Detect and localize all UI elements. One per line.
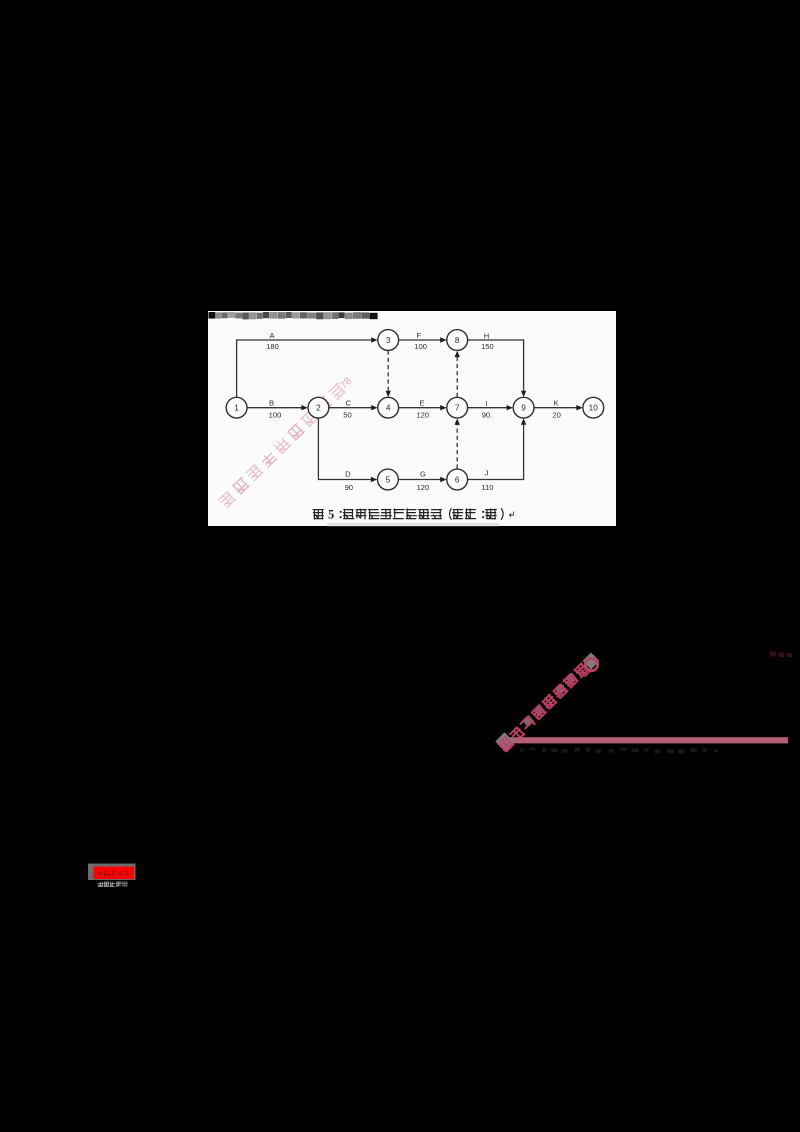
activity K arrow (9->10): [534, 407, 580, 409]
svg-text:5: 5: [386, 474, 391, 484]
activity G arrow (5->6): [399, 479, 445, 481]
svg-text:50: 50: [343, 411, 351, 420]
dashed dummy arrow (3->4): [387, 351, 389, 395]
svg-text:1: 1: [234, 403, 239, 413]
svg-text:4: 4: [386, 403, 391, 413]
svg-text:6: 6: [455, 474, 460, 484]
node 7: [447, 397, 468, 418]
svg-text:J: J: [485, 468, 489, 477]
node 3: [378, 330, 399, 351]
svg-text:3: 3: [386, 335, 391, 345]
svg-text:B: B: [269, 398, 274, 407]
svg-text:100: 100: [414, 342, 427, 351]
svg-text:E: E: [419, 398, 424, 407]
svg-text:5: 5: [328, 507, 334, 521]
node 9: [513, 397, 534, 418]
smudged heading text row: [209, 312, 378, 319]
svg-text:I: I: [485, 399, 487, 408]
svg-text:9: 9: [521, 403, 526, 413]
faint dark red dots right of line: [770, 652, 792, 658]
crimson diagonal watermark characters: [499, 663, 589, 752]
svg-text:F: F: [416, 331, 421, 340]
svg-text:100: 100: [269, 411, 282, 420]
activity E arrow (4->7): [399, 407, 445, 409]
red highlight box: [94, 867, 135, 880]
node 10: [583, 397, 604, 418]
activity F arrow (3->8): [399, 339, 445, 341]
figure white box: [208, 311, 616, 527]
node 8: [447, 330, 468, 351]
node 5: [378, 469, 399, 490]
svg-text:C: C: [345, 398, 351, 407]
svg-text:2: 2: [316, 403, 321, 413]
node 2: [308, 397, 329, 418]
svg-text:20: 20: [552, 411, 560, 420]
dark marks inside red box: [98, 870, 127, 877]
caption 图5：双代号网络计划图（单位：天）: [313, 507, 513, 521]
svg-text:7: 7: [455, 403, 460, 413]
node 6: [447, 469, 468, 490]
activity I arrow (7->9): [468, 407, 511, 409]
crimson watermark top characters: [579, 665, 590, 676]
svg-text:110: 110: [481, 483, 493, 492]
faint grey smear under caption: [327, 523, 499, 526]
dashed dummy arrow (6->7): [456, 421, 458, 469]
svg-text:90: 90: [345, 483, 353, 492]
svg-text:G: G: [420, 470, 426, 479]
activity A arrow (1->3): [237, 340, 376, 397]
node 4: [378, 397, 399, 418]
svg-text:D: D: [345, 470, 351, 479]
activity H arrow (8->9): [468, 340, 524, 395]
pink watermark 精准押题联系微信3849178 (rotated): [219, 375, 355, 508]
activity B arrow (1->2): [247, 407, 305, 409]
activity J arrow (6->9): [468, 421, 524, 480]
dashed dummy arrow (7->8): [456, 353, 458, 397]
node 1: [226, 397, 247, 418]
svg-text:120: 120: [416, 411, 429, 420]
faint dark marks under crimson line: [520, 748, 718, 754]
svg-text:8: 8: [455, 335, 460, 345]
svg-text:H: H: [484, 332, 489, 341]
svg-text:150: 150: [481, 342, 494, 351]
crimson line left end char: [495, 732, 513, 750]
svg-text:180: 180: [266, 342, 279, 351]
svg-text:120: 120: [417, 483, 430, 492]
svg-text:10: 10: [589, 403, 599, 413]
grey text line under red box: [98, 882, 128, 887]
activity C arrow (2->4): [329, 407, 375, 409]
svg-text:A: A: [269, 331, 275, 340]
activity D arrow (2->5): [318, 418, 375, 479]
svg-text:K: K: [553, 398, 558, 407]
crimson watermark ring: [583, 653, 600, 671]
crimson horizontal line: [503, 737, 788, 743]
svg-text:90: 90: [482, 411, 490, 420]
red highlight box grey halo: [88, 864, 136, 881]
